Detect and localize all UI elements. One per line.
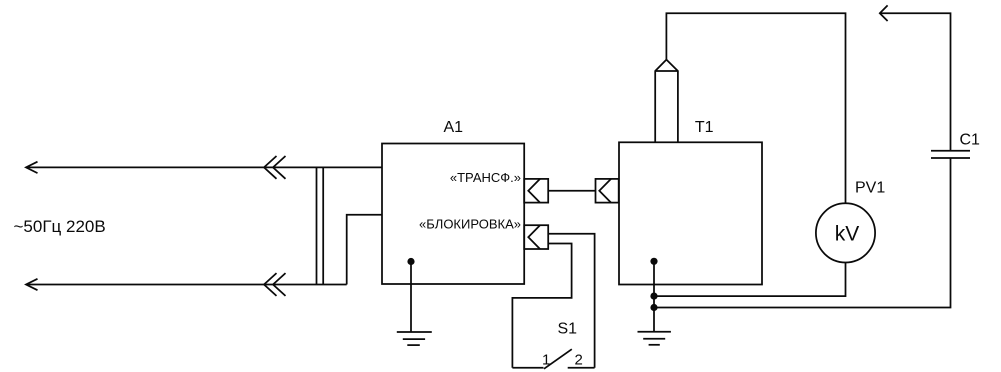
ground GND2 under T1 [638, 332, 671, 345]
capacitor C1 [931, 151, 970, 158]
wire XP1 to XS1 [548, 190, 595, 192]
svg-text:kV: kV [835, 223, 860, 246]
block A1 [382, 144, 524, 285]
wire L1 top mains input [26, 166, 382, 168]
svg-text:А1: А1 [444, 119, 464, 136]
arrowhead left top [26, 162, 38, 173]
block T1 [619, 142, 762, 284]
svg-text:~50Гц 220В: ~50Гц 220В [14, 217, 106, 236]
connector XS1 on T1 [596, 179, 619, 203]
ground GND1 under A1 [397, 332, 432, 345]
arrowhead left bottom [26, 279, 38, 290]
svg-text:2: 2 [575, 351, 583, 368]
switch S1 contact 1 lead [512, 367, 543, 369]
wire blocking lower to S1 [512, 244, 571, 368]
svg-text:«ТРАНСФ.»: «ТРАНСФ.» [450, 170, 521, 185]
svg-text:1: 1 [542, 351, 550, 368]
arrow to test object [880, 5, 951, 150]
wire blocking upper to S1 [548, 234, 594, 368]
node T1 ground dot [650, 258, 657, 265]
svg-text:«БЛОКИРОВКА»: «БЛОКИРОВКА» [419, 217, 521, 232]
wire C1 to ground bus [654, 158, 951, 308]
wire bottom input to A1 [347, 215, 382, 285]
connector X2 double chevron on bottom wire [264, 273, 286, 296]
switch S1 contact 2 lead [568, 367, 595, 369]
connector XP2 БЛОКИРОВКА output [524, 225, 548, 249]
wire HV output to PV1 [666, 13, 845, 203]
connector X1 double chevron on top wire [264, 156, 286, 179]
node A1 ground dot [407, 258, 414, 265]
node junction PV1 bus [650, 293, 657, 300]
svg-text:S1: S1 [558, 320, 578, 337]
wire PV1 to ground bus [654, 263, 846, 297]
wire A1 node to ground [410, 262, 412, 333]
meter PV1 [816, 203, 875, 262]
wire T1 node to ground [653, 261, 655, 331]
cable screen double vertical lines [317, 167, 324, 284]
HV bushing on T1 [655, 60, 678, 143]
connector XP1 ТРАНСФ. output [524, 179, 548, 203]
svg-text:Т1: Т1 [695, 119, 714, 136]
svg-text:PV1: PV1 [855, 179, 885, 196]
node junction C1 bus [650, 304, 657, 311]
switch S1 blade [544, 349, 572, 369]
svg-text:С1: С1 [960, 131, 981, 148]
wire L2 bottom mains input [26, 284, 347, 286]
